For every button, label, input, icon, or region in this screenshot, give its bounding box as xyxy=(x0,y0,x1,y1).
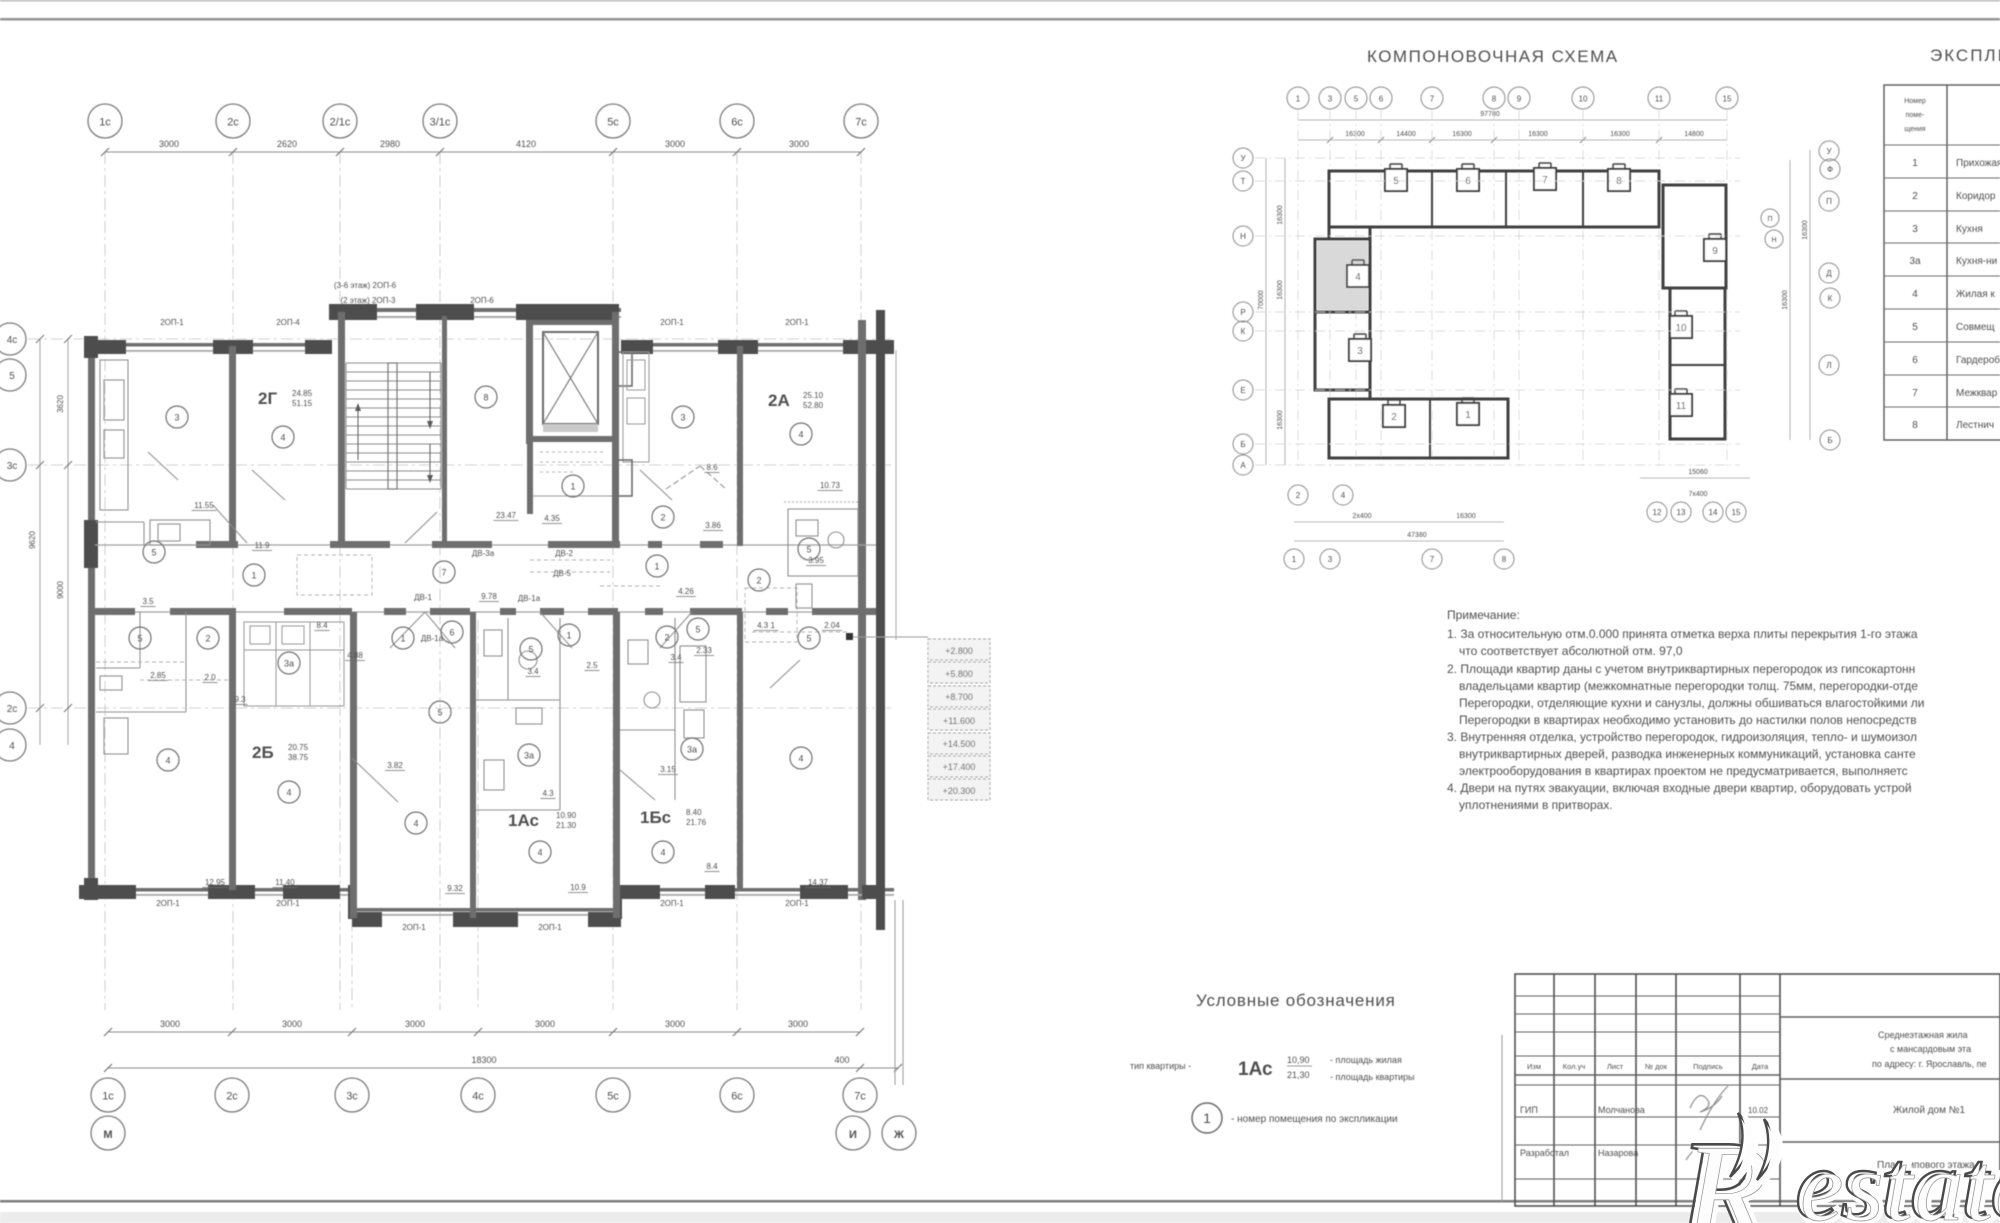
kitchen top right apartment fixtures xyxy=(623,352,649,462)
svg-text:2c: 2c xyxy=(226,1091,238,1103)
svg-text:3а: 3а xyxy=(687,745,697,755)
svg-text:5: 5 xyxy=(137,634,142,644)
wall axis 4c lower xyxy=(470,612,476,918)
svg-text:10.73: 10.73 xyxy=(820,481,841,490)
svg-text:1: 1 xyxy=(654,562,659,572)
elevator shaft walls xyxy=(533,320,612,325)
svg-text:Перегородки, отделяющие кухни: Перегородки, отделяющие кухни и санузлы,… xyxy=(1459,696,1924,710)
legend numbered circle xyxy=(1192,1103,1222,1133)
svg-text:ДВ-1а: ДВ-1а xyxy=(421,634,444,643)
svg-text:ДВ-2: ДВ-2 xyxy=(555,549,573,558)
elevator cab with X xyxy=(543,332,598,424)
page bottom strip xyxy=(0,1212,2000,1223)
svg-text:2ОП-1: 2ОП-1 xyxy=(785,318,809,327)
closet dashed marks corridor xyxy=(96,555,850,680)
svg-text:+5.800: +5.800 xyxy=(945,669,973,679)
svg-text:4: 4 xyxy=(286,788,291,798)
svg-text:38.75: 38.75 xyxy=(288,753,309,762)
svg-text:ДВ-1а: ДВ-1а xyxy=(518,594,541,603)
svg-text:3: 3 xyxy=(1912,224,1918,235)
svg-text:6: 6 xyxy=(1379,95,1384,104)
scheme building outline xyxy=(1315,171,1726,458)
svg-text:(3-6 этаж) 2ОП-6: (3-6 этаж) 2ОП-6 xyxy=(334,281,397,290)
svg-text:электрооборудования в квартир: электрооборудования в квартирах проектом… xyxy=(1459,764,1908,778)
svg-text:3а: 3а xyxy=(284,659,294,669)
scheme unit number boxes xyxy=(1385,169,1407,191)
svg-text:4.88: 4.88 xyxy=(347,651,363,660)
svg-text:16300: 16300 xyxy=(1452,131,1472,138)
svg-text:3.82: 3.82 xyxy=(387,761,403,770)
svg-text:3: 3 xyxy=(1328,95,1333,104)
top axis circles row xyxy=(88,104,122,138)
svg-text:4: 4 xyxy=(798,754,803,764)
svg-text:2Г: 2Г xyxy=(258,389,277,408)
svg-text:М: М xyxy=(103,1129,112,1141)
svg-text:5: 5 xyxy=(1354,95,1359,104)
svg-text:2: 2 xyxy=(205,634,210,644)
scheme internal dividers xyxy=(1430,171,1725,458)
svg-text:2ОП-1: 2ОП-1 xyxy=(538,923,562,932)
svg-text:4. Двери на путях эвакуации, в: 4. Двери на путях эвакуации, включая вхо… xyxy=(1447,781,1912,795)
svg-text:Прихожая: Прихожая xyxy=(1956,158,2000,169)
svg-text:1: 1 xyxy=(251,571,256,581)
stairwell right wall xyxy=(442,316,447,546)
svg-text:8: 8 xyxy=(1492,95,1497,104)
svg-text:Среднеэтажная жила: Среднеэтажная жила xyxy=(1878,1030,1968,1040)
svg-text:+17.400: +17.400 xyxy=(943,762,976,772)
svg-text:+20.300: +20.300 xyxy=(943,786,976,796)
svg-text:Б: Б xyxy=(1240,440,1245,449)
svg-text:П: П xyxy=(1826,197,1832,206)
svg-text:6c: 6c xyxy=(731,117,743,129)
svg-text:2: 2 xyxy=(1391,412,1397,423)
svg-text:- площадь квартиры: - площадь квартиры xyxy=(1330,1072,1415,1082)
svg-text:3c: 3c xyxy=(346,1091,358,1103)
svg-text:1: 1 xyxy=(1203,1110,1211,1126)
svg-text:(2 этаж) 2ОП-3: (2 этаж) 2ОП-3 xyxy=(340,296,396,305)
svg-text:2.85: 2.85 xyxy=(150,671,166,680)
svg-text:с мансардовым эта: с мансардовым эта xyxy=(1890,1044,1971,1054)
svg-text:3000: 3000 xyxy=(282,1019,302,1029)
wall axis 5c lower xyxy=(613,612,620,918)
svg-text:Разработал: Разработал xyxy=(1520,1148,1569,1158)
svg-text:5: 5 xyxy=(1393,176,1399,187)
bottom dimension line 2 (total) xyxy=(108,1067,898,1069)
svg-text:8.40: 8.40 xyxy=(686,808,702,817)
svg-text:4: 4 xyxy=(1912,289,1918,300)
bottom dimension line 1 xyxy=(108,1031,860,1033)
svg-text:8: 8 xyxy=(1912,420,1918,431)
corridor lower wall xyxy=(95,611,876,613)
svg-text:5: 5 xyxy=(695,625,700,635)
svg-text:2.33: 2.33 xyxy=(696,646,712,655)
svg-text:70000: 70000 xyxy=(1258,290,1265,310)
svg-text:4c: 4c xyxy=(472,1091,484,1103)
niche right of elevator xyxy=(618,352,632,386)
svg-text:1: 1 xyxy=(566,631,571,641)
scheme shaded unit 4 xyxy=(1317,241,1368,310)
svg-text:3а: 3а xyxy=(524,751,534,761)
svg-text:15060: 15060 xyxy=(1688,469,1708,476)
svg-text:97780: 97780 xyxy=(1480,111,1500,118)
elevator door sill xyxy=(543,424,598,432)
svg-text:5: 5 xyxy=(528,645,533,655)
svg-text:2А: 2А xyxy=(768,391,790,410)
svg-text:Лист: Лист xyxy=(1607,1062,1624,1071)
svg-text:Н: Н xyxy=(1240,232,1246,241)
svg-text:Номер: Номер xyxy=(1904,98,1926,105)
scheme small inner circles right xyxy=(1761,209,1779,227)
svg-text:щения: щения xyxy=(1904,126,1925,133)
svg-text:Ф: Ф xyxy=(1827,165,1833,174)
svg-text:2ОП-1: 2ОП-1 xyxy=(156,899,180,908)
svg-text:1: 1 xyxy=(1465,410,1471,421)
svg-text:52.80: 52.80 xyxy=(803,401,824,410)
internal vertical wall axis 2c upper xyxy=(229,346,236,546)
outer wall top left section xyxy=(88,343,332,347)
svg-text:2.04: 2.04 xyxy=(824,621,840,630)
svg-text:4: 4 xyxy=(165,756,170,766)
stairwell left wall xyxy=(338,312,345,546)
svg-text:4.3: 4.3 xyxy=(542,789,554,798)
room number circles xyxy=(166,406,188,428)
svg-text:16300: 16300 xyxy=(1802,220,1809,240)
svg-text:15: 15 xyxy=(1732,508,1741,517)
svg-text:1Ас: 1Ас xyxy=(1238,1059,1273,1080)
2B kitchen fixture cluster xyxy=(244,622,344,706)
svg-text:3000: 3000 xyxy=(788,1019,808,1029)
svg-text:2.5: 2.5 xyxy=(586,661,598,670)
svg-text:2/1c: 2/1c xyxy=(330,117,351,129)
svg-text:20.75: 20.75 xyxy=(288,743,309,752)
svg-text:2ОП-4: 2ОП-4 xyxy=(276,318,300,327)
svg-text:ДВ-3а: ДВ-3а xyxy=(472,549,495,558)
svg-text:4: 4 xyxy=(798,430,803,440)
svg-text:14.37: 14.37 xyxy=(808,878,829,887)
svg-text:Перегородки в квартирах необх: Перегородки в квартирах необходимо устан… xyxy=(1459,713,1917,727)
svg-text:2c: 2c xyxy=(227,117,239,129)
svg-text:4: 4 xyxy=(660,848,665,858)
svg-text:2ОП-1: 2ОП-1 xyxy=(402,923,426,932)
svg-text:11: 11 xyxy=(1676,401,1687,412)
scheme left axis circles xyxy=(1233,148,1253,168)
svg-text:2: 2 xyxy=(1296,491,1301,500)
svg-text:8: 8 xyxy=(1502,555,1507,564)
svg-text:2c: 2c xyxy=(7,704,18,715)
svg-text:16300: 16300 xyxy=(1782,290,1789,310)
svg-text:21.30: 21.30 xyxy=(556,821,577,830)
page top edge dark line xyxy=(0,0,2000,2)
svg-text:1: 1 xyxy=(400,634,405,644)
dotted leader 10.73 xyxy=(784,501,858,503)
svg-text:47380: 47380 xyxy=(1407,532,1427,539)
svg-text:2ОП-1: 2ОП-1 xyxy=(276,899,300,908)
svg-text:3000: 3000 xyxy=(535,1019,555,1029)
svg-text:4: 4 xyxy=(413,819,418,829)
svg-text:10.90: 10.90 xyxy=(556,811,577,820)
svg-text:2.0: 2.0 xyxy=(204,673,216,682)
svg-text:14800: 14800 xyxy=(1684,131,1704,138)
bottom axis circles row xyxy=(91,1078,125,1112)
svg-text:3000: 3000 xyxy=(159,139,179,149)
svg-text:6: 6 xyxy=(1465,176,1471,187)
svg-text:3.95: 3.95 xyxy=(808,556,824,565)
svg-text:2980: 2980 xyxy=(380,139,400,149)
svg-text:Р: Р xyxy=(1240,308,1245,317)
svg-text:Молчанова: Молчанова xyxy=(1598,1105,1645,1115)
svg-text:4: 4 xyxy=(537,848,542,858)
svg-text:владельцами квартир (межкомнат: владельцами квартир (межкомнатные перего… xyxy=(1459,679,1918,693)
scheme left dim chain xyxy=(1265,158,1267,465)
scheme vertical axis guides xyxy=(1298,110,1727,470)
outer wall left xyxy=(88,340,95,900)
svg-text:10: 10 xyxy=(1579,95,1588,104)
svg-text:тип квартиры -: тип квартиры - xyxy=(1130,1061,1191,1071)
svg-text:- номер помещения по экспликац: - номер помещения по экспликации xyxy=(1231,1114,1398,1125)
scheme bottom axis circles xyxy=(1288,485,1308,505)
svg-text:11: 11 xyxy=(1655,95,1664,104)
1Bc bathroom block xyxy=(620,618,706,800)
svg-text:estate: estate xyxy=(1800,1134,2000,1223)
svg-text:2ОП-6: 2ОП-6 xyxy=(470,296,494,305)
svg-text:16300: 16300 xyxy=(1277,205,1284,225)
svg-text:Кухня-ни: Кухня-ни xyxy=(1956,256,1997,267)
elevation marks boxes xyxy=(928,639,990,660)
svg-text:2Б: 2Б xyxy=(252,743,274,762)
axis circle Zh xyxy=(882,1116,916,1150)
svg-text:Изм: Изм xyxy=(1527,1062,1541,1071)
svg-text:11.40: 11.40 xyxy=(275,878,295,887)
svg-text:3: 3 xyxy=(1357,346,1363,357)
scheme axis circles top row xyxy=(1287,87,1309,109)
svg-text:7c: 7c xyxy=(855,117,867,129)
svg-text:16300: 16300 xyxy=(1456,513,1476,520)
svg-text:16300: 16300 xyxy=(1528,131,1548,138)
svg-text:21.76: 21.76 xyxy=(686,818,707,827)
left dimension chains xyxy=(39,339,41,745)
svg-text:2x400: 2x400 xyxy=(1352,513,1371,520)
lobby below elevator xyxy=(527,442,533,514)
svg-text:7: 7 xyxy=(1430,95,1435,104)
svg-text:11.9: 11.9 xyxy=(255,541,271,550)
door swing diagonals xyxy=(148,452,800,802)
svg-text:Коридор: Коридор xyxy=(1956,191,1996,202)
svg-text:5: 5 xyxy=(806,634,811,644)
wall axis 5c upper xyxy=(612,312,619,546)
svg-text:3000: 3000 xyxy=(665,139,685,149)
stair flight treads xyxy=(346,363,441,489)
svg-text:Кухня: Кухня xyxy=(1956,224,1983,235)
page bottom frame line xyxy=(0,1200,2000,1203)
svg-text:1c: 1c xyxy=(102,1091,114,1103)
svg-text:6c: 6c xyxy=(731,1091,743,1103)
left axis circles xyxy=(0,323,26,355)
svg-text:2ОП-1: 2ОП-1 xyxy=(160,318,184,327)
plan horizontal axis grid lines xyxy=(28,339,893,708)
svg-text:К: К xyxy=(1828,294,1833,303)
svg-text:18300: 18300 xyxy=(471,1055,496,1065)
svg-text:Т: Т xyxy=(1241,177,1246,186)
svg-text:25.10: 25.10 xyxy=(803,391,824,400)
kitchen partition left apartment xyxy=(100,360,128,510)
axis circle I xyxy=(836,1116,870,1150)
corridor upper wall xyxy=(95,544,876,546)
svg-text:4: 4 xyxy=(1355,272,1361,283)
scheme bottom dim lines xyxy=(1294,521,1504,523)
svg-text:№ док: № док xyxy=(1645,1062,1668,1071)
svg-text:3.5: 3.5 xyxy=(142,597,154,606)
svg-text:Совмещ: Совмещ xyxy=(1956,322,1995,333)
stair central stringer xyxy=(388,363,397,489)
svg-text:2ОП-1: 2ОП-1 xyxy=(785,899,809,908)
svg-text:Гардероб: Гардероб xyxy=(1956,354,2000,366)
outer wall bottom right section xyxy=(621,888,894,892)
watermark swoosh crescents xyxy=(1734,1116,1754,1180)
scheme right axis circles xyxy=(1819,141,1839,161)
svg-text:9.32: 9.32 xyxy=(447,884,463,893)
svg-text:12: 12 xyxy=(1653,508,1662,517)
svg-text:23.47: 23.47 xyxy=(496,511,517,520)
svg-text:Назарова: Назарова xyxy=(1598,1148,1638,1158)
svg-text:8.4: 8.4 xyxy=(316,621,328,630)
elevator shaft left wall xyxy=(526,320,533,444)
svg-text:поме-: поме- xyxy=(1906,112,1925,119)
svg-text:что соответствует абсолютной о: что соответствует абсолютной отм. 97,0 xyxy=(1459,644,1683,658)
svg-text:3.15: 3.15 xyxy=(660,765,676,774)
svg-text:+11.600: +11.600 xyxy=(943,716,975,726)
svg-text:2. Площади квартир даны с учет: 2. Площади квартир даны с учетом внутрик… xyxy=(1447,662,1915,676)
svg-text:Условные обозначения: Условные обозначения xyxy=(1196,991,1396,1010)
svg-text:7: 7 xyxy=(441,568,446,578)
scheme right dim chain xyxy=(1789,160,1791,440)
wall axis 6c upper xyxy=(737,346,743,546)
svg-text:3.86: 3.86 xyxy=(705,521,721,530)
svg-text:ДВ-1: ДВ-1 xyxy=(414,593,432,602)
svg-text:Примечание:: Примечание: xyxy=(1447,608,1520,622)
svg-text:К: К xyxy=(1241,327,1246,336)
svg-text:9.78: 9.78 xyxy=(481,592,497,601)
svg-text:1: 1 xyxy=(1292,555,1297,564)
outer wall bottom middle bay (protruding) xyxy=(352,908,621,912)
svg-text:Д: Д xyxy=(1826,269,1832,278)
svg-text:ДВ-5: ДВ-5 xyxy=(553,569,571,578)
internal vertical wall axis 2c lower xyxy=(229,612,236,890)
svg-text:Е: Е xyxy=(1240,386,1245,395)
svg-text:уплотнениями в притворах.: уплотнениями в притворах. xyxy=(1459,798,1613,812)
svg-text:1c: 1c xyxy=(99,117,111,129)
svg-text:400: 400 xyxy=(834,1055,849,1065)
svg-text:3.4: 3.4 xyxy=(527,667,539,676)
svg-text:21,30: 21,30 xyxy=(1287,1070,1310,1080)
svg-text:Н: Н xyxy=(1771,237,1776,244)
svg-text:16300: 16300 xyxy=(1345,131,1365,138)
svg-text:1Ас: 1Ас xyxy=(508,811,539,830)
svg-text:1. За относительную отм.0.000: 1. За относительную отм.0.000 принята от… xyxy=(1447,627,1918,641)
svg-text:2: 2 xyxy=(756,576,761,586)
svg-text:+2.800: +2.800 xyxy=(945,646,973,656)
svg-text:16300: 16300 xyxy=(1610,131,1630,138)
svg-text:Межквар: Межквар xyxy=(1956,388,1998,399)
scheme top dim lines xyxy=(1298,119,1727,121)
axis circle M xyxy=(91,1116,125,1150)
door jamb on axis 5c wall xyxy=(618,460,632,496)
svg-text:2: 2 xyxy=(664,633,669,643)
svg-text:13: 13 xyxy=(1677,508,1686,517)
svg-text:Б: Б xyxy=(1827,436,1832,445)
svg-text:2ОП-1: 2ОП-1 xyxy=(660,318,684,327)
svg-text:Л: Л xyxy=(1826,361,1831,370)
svg-text:Дата: Дата xyxy=(1752,1062,1769,1071)
svg-text:7: 7 xyxy=(1912,388,1918,399)
svg-text:1: 1 xyxy=(570,482,575,492)
svg-text:3.4: 3.4 xyxy=(670,653,682,662)
svg-text:16300: 16300 xyxy=(1277,280,1284,300)
svg-text:51.15: 51.15 xyxy=(292,399,313,408)
svg-text:9000: 9000 xyxy=(56,581,65,599)
svg-text:КОМПОНОВОЧНАЯ СХЕМА: КОМПОНОВОЧНАЯ СХЕМА xyxy=(1367,47,1619,66)
svg-text:+14.500: +14.500 xyxy=(943,739,976,749)
svg-text:4.35: 4.35 xyxy=(544,514,560,523)
svg-text:3/1c: 3/1c xyxy=(430,117,451,129)
title block outer xyxy=(1501,1035,1503,1202)
small rooms below corridor left xyxy=(96,612,186,754)
2A bathroom cluster upper right xyxy=(788,509,858,608)
wall axis 6c lower xyxy=(737,612,743,890)
page top frame line xyxy=(0,18,2000,21)
svg-text:9: 9 xyxy=(1517,95,1522,104)
scheme horizontal axis guides xyxy=(1255,158,1740,465)
svg-text:7c: 7c xyxy=(854,1091,866,1103)
outer wall bottom left section xyxy=(88,888,352,892)
svg-text:15: 15 xyxy=(1723,95,1732,104)
svg-text:14: 14 xyxy=(1709,508,1718,517)
svg-text:по адресу: г. Ярославль, пе: по адресу: г. Ярославль, пе xyxy=(1872,1059,1987,1069)
svg-text:И: И xyxy=(849,1129,857,1141)
svg-text:1Бс: 1Бс xyxy=(640,808,671,827)
svg-text:ГИП: ГИП xyxy=(1520,1105,1538,1115)
plan vertical axis grid lines xyxy=(105,152,861,1010)
stair landing edges xyxy=(345,363,347,489)
svg-text:24.85: 24.85 xyxy=(292,389,313,398)
outer wall right (double / expansion joint) xyxy=(858,320,866,900)
svg-text:8.4: 8.4 xyxy=(706,862,718,871)
svg-text:2: 2 xyxy=(1912,191,1918,202)
svg-text:10.9: 10.9 xyxy=(570,883,586,892)
svg-text:3000: 3000 xyxy=(665,1019,685,1029)
svg-text:3а: 3а xyxy=(1909,256,1921,267)
svg-text:6: 6 xyxy=(1912,355,1918,366)
svg-text:- площадь жилая: - площадь жилая xyxy=(1330,1055,1402,1065)
svg-text:12.95: 12.95 xyxy=(205,878,226,887)
bath block left apartment xyxy=(96,520,210,545)
svg-text:4.3 1: 4.3 1 xyxy=(757,621,775,630)
top dimension line xyxy=(105,151,861,153)
svg-text:1: 1 xyxy=(1296,95,1301,104)
svg-text:5: 5 xyxy=(1912,322,1918,333)
svg-text:10,90: 10,90 xyxy=(1287,1055,1310,1065)
svg-text:3000: 3000 xyxy=(789,139,809,149)
svg-text:8: 8 xyxy=(1616,176,1622,187)
svg-text:+8.700: +8.700 xyxy=(945,692,973,702)
svg-text:3. Внутренняя отделка, устройс: 3. Внутренняя отделка, устройство перего… xyxy=(1447,730,1917,744)
svg-text:4c: 4c xyxy=(7,335,18,346)
svg-text:5: 5 xyxy=(806,545,811,555)
svg-text:Кол.уч: Кол.уч xyxy=(1563,1062,1586,1071)
svg-text:16300: 16300 xyxy=(1277,410,1284,430)
svg-text:14400: 14400 xyxy=(1396,131,1416,138)
svg-text:3: 3 xyxy=(680,413,685,423)
outer wall top right section xyxy=(621,343,894,347)
